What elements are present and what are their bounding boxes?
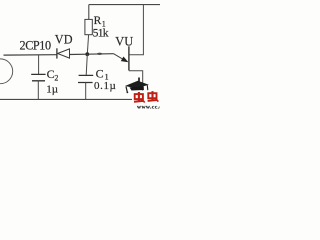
svg-text:C: C <box>96 66 104 80</box>
wire: bottom ground rail <box>0 98 160 100</box>
svg-text:www.cc.c: www.cc.c <box>137 104 160 110</box>
watermark: red character chong #2 <box>148 91 159 102</box>
resistor R1 <box>85 19 92 34</box>
transistor bar <box>128 46 130 70</box>
diode VD (triangle, anode right) <box>58 49 70 58</box>
capacitor C2 plates <box>31 74 45 80</box>
watermark: white backing plate <box>132 91 160 110</box>
svg-text:VU: VU <box>115 34 133 48</box>
wire: top supply rail <box>89 4 160 6</box>
svg-text:1µ: 1µ <box>46 84 58 96</box>
wire: R1 bottom lead to junction <box>87 35 88 55</box>
transistor collector lead <box>129 5 144 55</box>
capacitor C1 top lead <box>86 54 87 75</box>
svg-text:2: 2 <box>54 73 58 82</box>
wire: rail corner down to R1 top <box>88 5 90 20</box>
watermark: graduation cap icon <box>125 78 149 94</box>
junction node (dot) <box>85 52 89 56</box>
wire: diode anode to junction to base bend <box>70 53 114 56</box>
svg-text:2CP10: 2CP10 <box>20 38 51 52</box>
svg-text:0.1µ: 0.1µ <box>94 80 117 92</box>
capacitor C1 plates <box>78 75 93 82</box>
transistor arrowhead <box>121 57 129 63</box>
transistor emitter lead <box>129 71 143 100</box>
transistor VU base/emitter diagonal lead with arrow <box>114 54 127 62</box>
capacitor C2 top lead <box>38 55 40 74</box>
svg-text:51k: 51k <box>93 26 109 39</box>
capacitor C1 bottom lead <box>85 83 87 100</box>
earphone B (circle, clipped at left edge) <box>0 59 13 84</box>
watermark: red character chong #1 <box>134 92 145 103</box>
wire: main horizontal net (B to diode) <box>4 54 57 56</box>
svg-text:VD: VD <box>55 32 73 46</box>
wire smudge on net <box>97 53 102 55</box>
diode VD (cathode bar) <box>56 48 58 58</box>
capacitor C2 bottom lead <box>37 81 39 100</box>
